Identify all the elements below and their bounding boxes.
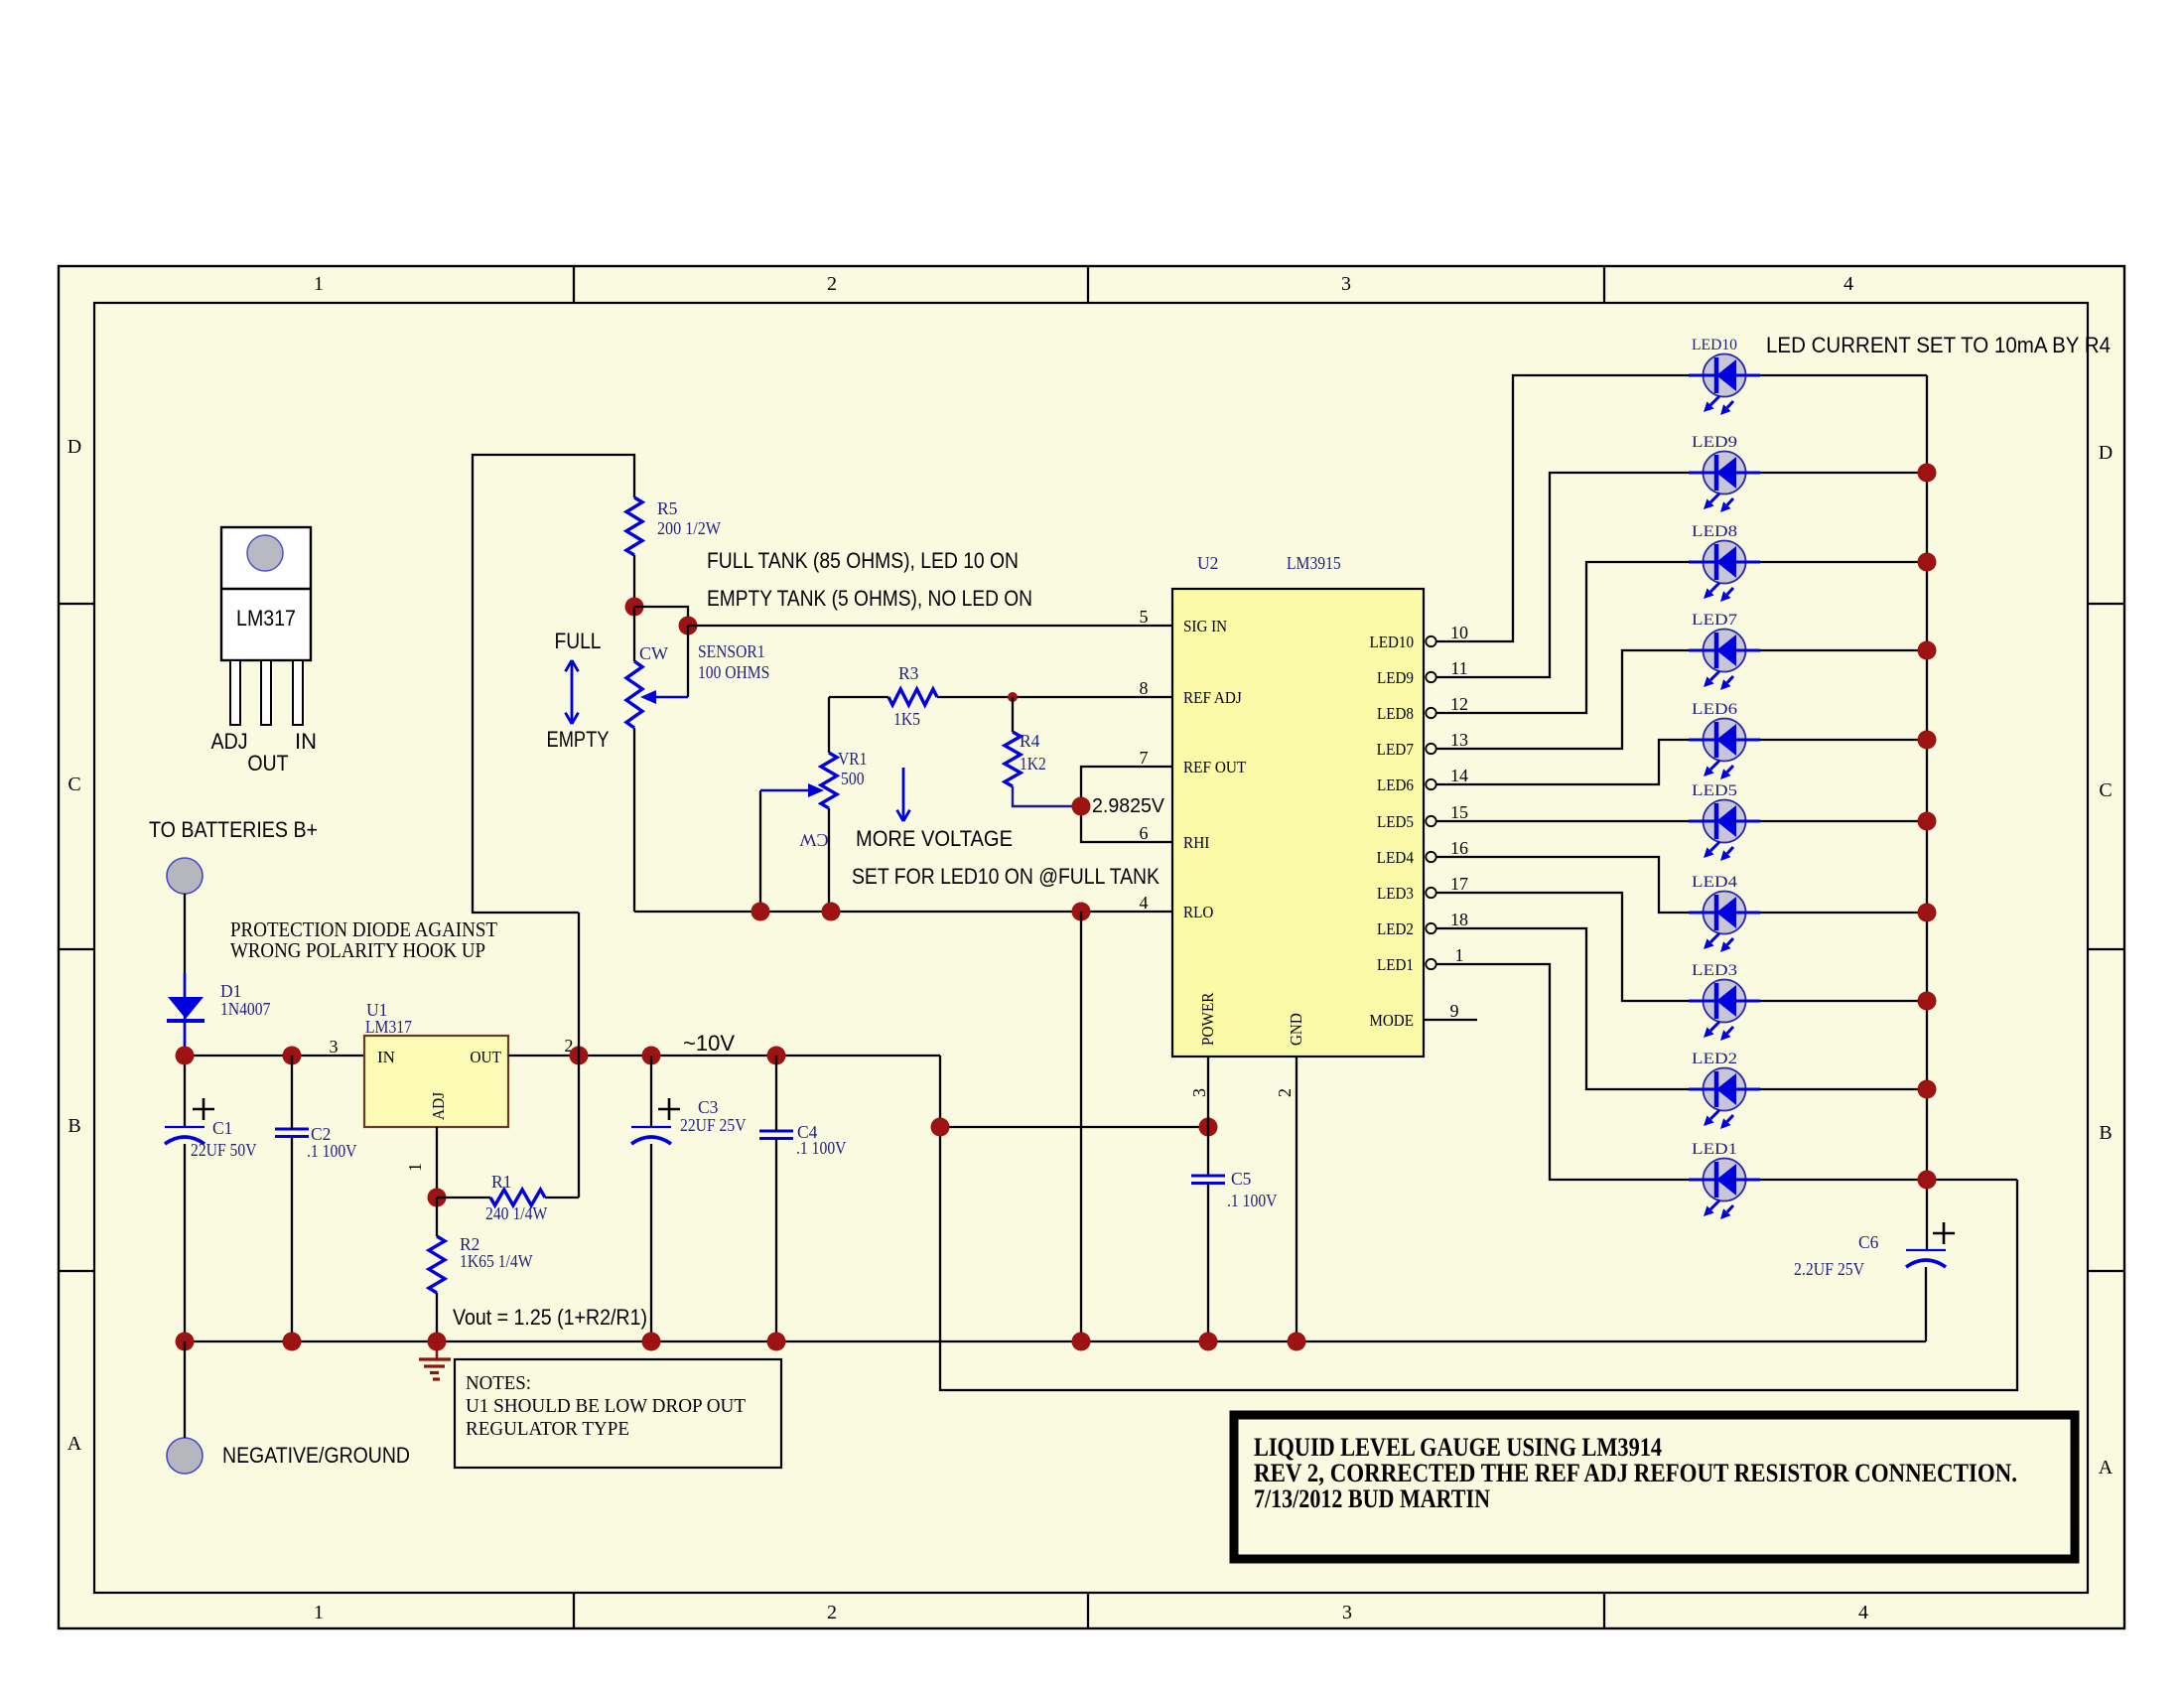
svg-text:ADJ: ADJ <box>429 1092 448 1120</box>
svg-text:LED1: LED1 <box>1377 955 1414 974</box>
junction bus LED2 <box>1918 1080 1937 1099</box>
svg-text:LED8: LED8 <box>1377 704 1414 723</box>
svg-text:LED3: LED3 <box>1377 884 1414 903</box>
svg-text:D: D <box>68 436 81 458</box>
capacitor C6 <box>1906 1249 1946 1251</box>
svg-text:7: 7 <box>1140 748 1149 768</box>
svg-text:LM3915: LM3915 <box>1287 553 1341 573</box>
frame column tick <box>1603 266 1605 303</box>
svg-text:LED7: LED7 <box>1692 612 1737 629</box>
junction C3 tap <box>642 1047 661 1065</box>
junction RLO/ref divider <box>1072 903 1091 921</box>
junction R5/sensor <box>625 598 644 617</box>
svg-text:4: 4 <box>1843 273 1853 295</box>
potentiometer VR1 <box>821 753 837 808</box>
junction bus LED3 <box>1918 992 1937 1011</box>
svg-text:LED6: LED6 <box>1377 775 1414 794</box>
svg-text:EMPTY TANK (5 OHMS), NO LED ON: EMPTY TANK (5 OHMS), NO LED ON <box>707 586 1032 611</box>
svg-text:3: 3 <box>1341 273 1351 295</box>
svg-text:2.2UF 25V: 2.2UF 25V <box>1794 1259 1864 1279</box>
junction R3/R4 <box>1008 692 1018 702</box>
inner border <box>94 303 2088 1593</box>
svg-text:2: 2 <box>827 1602 837 1623</box>
svg-text:2: 2 <box>1275 1088 1295 1097</box>
wire pin to LED7 <box>1436 650 1927 749</box>
svg-text:R3: R3 <box>898 663 919 683</box>
svg-text:12: 12 <box>1450 694 1468 714</box>
svg-text:C5: C5 <box>1231 1169 1252 1189</box>
svg-text:3: 3 <box>1342 1602 1352 1623</box>
capacitor C5 <box>1191 1175 1225 1178</box>
LED2 symbol <box>1704 1068 1746 1111</box>
svg-text:FULL TANK (85 OHMS), LED 10 ON: FULL TANK (85 OHMS), LED 10 ON <box>707 548 1019 573</box>
full-empty arrow <box>571 660 574 724</box>
svg-text:REGULATOR TYPE: REGULATOR TYPE <box>466 1418 629 1440</box>
svg-text:1: 1 <box>314 1602 324 1623</box>
wire pin to LED8 <box>1436 562 1927 713</box>
junction sensor wiper node <box>679 617 698 635</box>
svg-text:RHI: RHI <box>1183 833 1210 852</box>
svg-text:1: 1 <box>1455 945 1464 965</box>
frame column tick <box>573 266 575 303</box>
ground rail <box>185 1340 1926 1342</box>
svg-text:RLO: RLO <box>1183 903 1213 921</box>
svg-text:LED10: LED10 <box>1692 337 1737 353</box>
svg-text:.1 100V: .1 100V <box>1227 1191 1278 1210</box>
svg-text:CW: CW <box>799 830 828 850</box>
svg-text:LED5: LED5 <box>1377 812 1414 831</box>
MODE stub <box>1424 1019 1477 1021</box>
svg-text:LED5: LED5 <box>1692 782 1737 799</box>
svg-text:LED6: LED6 <box>1692 701 1737 718</box>
LED6 symbol <box>1704 719 1746 762</box>
svg-text:4: 4 <box>1140 893 1149 913</box>
svg-text:MODE: MODE <box>1369 1011 1414 1030</box>
capacitor C3 <box>631 1126 671 1128</box>
svg-text:WRONG POLARITY HOOK UP: WRONG POLARITY HOOK UP <box>230 938 485 962</box>
svg-text:11: 11 <box>1450 658 1467 678</box>
svg-text:LED4: LED4 <box>1692 874 1737 891</box>
wire 10V feed down <box>940 1056 2017 1390</box>
svg-text:GND: GND <box>1287 1013 1305 1046</box>
svg-text:C1: C1 <box>212 1118 232 1138</box>
svg-text:POWER: POWER <box>1198 992 1217 1046</box>
svg-text:A: A <box>2099 1457 2114 1479</box>
svg-text:FULL: FULL <box>555 629 602 653</box>
svg-text:LED1: LED1 <box>1692 1141 1737 1158</box>
junction bus LED7 <box>1918 641 1937 660</box>
svg-text:U1 SHOULD BE LOW DROP OUT: U1 SHOULD BE LOW DROP OUT <box>466 1395 746 1417</box>
svg-text:100 OHMS: 100 OHMS <box>698 662 769 682</box>
capacitor C2 <box>275 1128 309 1131</box>
svg-text:OUT: OUT <box>470 1048 501 1066</box>
wire B+ to D1 <box>184 894 186 1127</box>
sensor wiper arrow <box>687 626 689 697</box>
wire pin to LED3 <box>1436 893 1927 1001</box>
junction ground rail x=656 <box>642 1333 661 1351</box>
svg-text:LED3: LED3 <box>1692 962 1737 979</box>
svg-text:ADJ: ADJ <box>211 729 248 754</box>
svg-text:NEGATIVE/GROUND: NEGATIVE/GROUND <box>222 1443 410 1468</box>
svg-text:2.9825V: 2.9825V <box>1092 794 1164 817</box>
svg-text:LIQUID LEVEL GAUGE USING LM391: LIQUID LEVEL GAUGE USING LM3914 <box>1254 1433 1662 1462</box>
svg-text:B: B <box>68 1115 80 1137</box>
svg-text:LED7: LED7 <box>1377 740 1415 759</box>
battery terminal B+ <box>167 858 203 894</box>
junction bus LED9 <box>1918 464 1937 483</box>
svg-text:1: 1 <box>314 273 324 295</box>
wire power node <box>940 1126 1208 1128</box>
junction ground rail x=1306 <box>1288 1333 1306 1351</box>
wire RLO rail <box>634 911 1172 913</box>
frame row tick <box>59 1270 94 1272</box>
svg-text:6: 6 <box>1140 823 1149 843</box>
svg-text:4: 4 <box>1858 1602 1868 1623</box>
LED8 symbol <box>1704 541 1746 584</box>
wire POWER pin <box>1207 1057 1209 1176</box>
svg-text:C: C <box>68 774 80 795</box>
svg-text:17: 17 <box>1450 874 1468 894</box>
svg-text:LM317: LM317 <box>236 606 296 631</box>
wire pin to LED10 <box>1436 375 1927 641</box>
junction ADJ/R1/R2 <box>428 1189 447 1207</box>
svg-text:REF OUT: REF OUT <box>1183 758 1247 776</box>
potentiometer SENSOR1 <box>626 661 642 728</box>
LED anode bus <box>1926 375 1928 1250</box>
svg-text:LED2: LED2 <box>1377 919 1414 938</box>
svg-text:7/13/2012 BUD MARTIN: 7/13/2012 BUD MARTIN <box>1254 1484 1490 1513</box>
wire U1 ADJ <box>436 1127 438 1198</box>
svg-text:LED10: LED10 <box>1370 633 1415 651</box>
svg-text:13: 13 <box>1450 730 1468 750</box>
frame row tick <box>59 948 94 950</box>
svg-text:18: 18 <box>1450 910 1468 929</box>
junction input/C2 <box>283 1047 302 1065</box>
svg-text:LED8: LED8 <box>1692 523 1737 540</box>
svg-text:22UF 25V: 22UF 25V <box>680 1115 747 1135</box>
svg-text:~10V: ~10V <box>683 1031 735 1056</box>
title block <box>1234 1415 2075 1559</box>
svg-text:LM317: LM317 <box>365 1017 412 1037</box>
svg-text:16: 16 <box>1450 838 1468 858</box>
svg-text:22UF 50V: 22UF 50V <box>191 1140 257 1160</box>
junction bus LED1 <box>1918 1171 1937 1190</box>
sheet background <box>59 266 2124 1628</box>
svg-text:.1 100V: .1 100V <box>307 1141 357 1161</box>
regulator U1 body <box>364 1036 508 1127</box>
svg-text:14: 14 <box>1450 766 1468 785</box>
junction ground rail x=1217 <box>1199 1333 1218 1351</box>
LED5 symbol <box>1704 800 1746 843</box>
svg-text:Vout = 1.25 (1+R2/R1): Vout = 1.25 (1+R2/R1) <box>453 1305 647 1330</box>
svg-text:1N4007: 1N4007 <box>220 999 271 1019</box>
LED10 symbol <box>1704 354 1746 397</box>
wire REF OUT RHI <box>1081 767 1172 842</box>
resistor R3 <box>888 689 937 705</box>
svg-text:1K2: 1K2 <box>1020 754 1046 774</box>
junction bus LED4 <box>1918 904 1937 922</box>
resistor R4 <box>1005 732 1021 786</box>
junction VR1 bottom/RLO <box>822 903 841 921</box>
LED7 symbol <box>1704 630 1746 672</box>
LM317 leg 1 <box>230 660 240 725</box>
svg-text:10: 10 <box>1450 623 1468 642</box>
IC U2 body <box>1172 589 1424 1057</box>
svg-text:LED9: LED9 <box>1692 434 1737 451</box>
junction bus LED5 <box>1918 812 1937 831</box>
wire pin to LED9 <box>1436 473 1927 677</box>
svg-text:3: 3 <box>330 1037 339 1057</box>
LED9 symbol <box>1704 452 1746 494</box>
svg-text:A: A <box>68 1433 82 1455</box>
more voltage arrow <box>902 768 905 821</box>
svg-text:REF ADJ: REF ADJ <box>1183 688 1242 707</box>
svg-text:IN: IN <box>295 729 317 754</box>
svg-text:R1: R1 <box>491 1172 511 1192</box>
capacitor C1 <box>165 1126 205 1128</box>
svg-text:LED9: LED9 <box>1377 668 1414 687</box>
svg-text:C3: C3 <box>698 1097 719 1117</box>
wire ref divider to ground <box>1080 912 1082 1341</box>
VR1 wiper arrow <box>759 790 761 912</box>
svg-text:LED2: LED2 <box>1692 1051 1737 1067</box>
wire pin to LED6 <box>1436 740 1927 784</box>
wire GND pin <box>1296 1057 1297 1341</box>
LM317 leg 2 <box>261 660 271 725</box>
svg-text:LED4: LED4 <box>1377 848 1415 867</box>
svg-text:U2: U2 <box>1197 553 1218 573</box>
svg-text:200 1/2W: 200 1/2W <box>657 518 721 538</box>
svg-text:1K5: 1K5 <box>893 709 920 729</box>
svg-text:1K65 1/4W: 1K65 1/4W <box>460 1251 533 1271</box>
wire VR1 top <box>828 697 830 753</box>
junction REF node <box>1072 797 1091 816</box>
svg-text:9: 9 <box>1450 1001 1459 1021</box>
svg-text:R4: R4 <box>1020 731 1040 751</box>
svg-text:3: 3 <box>1189 1088 1209 1097</box>
junction 10V/power <box>931 1118 950 1137</box>
svg-text:D: D <box>2099 442 2113 464</box>
junction bus LED8 <box>1918 553 1937 572</box>
svg-text:1: 1 <box>405 1163 425 1172</box>
frame row tick <box>59 603 94 605</box>
junction VR1 wiper/RLO <box>751 903 770 921</box>
junction power pin <box>1199 1118 1218 1137</box>
LED4 symbol <box>1704 892 1746 934</box>
svg-text:SET FOR LED10 ON @FULL TANK: SET FOR LED10 ON @FULL TANK <box>852 864 1160 889</box>
wire OUT loop <box>473 455 634 913</box>
wire R1 to OUT <box>578 913 580 1198</box>
wire pin to LED5 <box>1436 820 1927 822</box>
ground symbol <box>436 1341 439 1359</box>
junction ground rail x=294 <box>283 1333 302 1351</box>
svg-text:TO BATTERIES B+: TO BATTERIES B+ <box>149 817 318 842</box>
svg-text:C6: C6 <box>1858 1232 1879 1252</box>
junction bus LED6 <box>1918 731 1937 750</box>
svg-text:8: 8 <box>1140 678 1149 698</box>
wire sensor jog <box>634 607 688 626</box>
svg-text:D1: D1 <box>220 981 241 1001</box>
negative terminal <box>167 1438 203 1474</box>
svg-text:15: 15 <box>1450 802 1468 822</box>
LM317 package tab divider <box>221 588 311 590</box>
junction C4 tap <box>767 1047 786 1065</box>
svg-text:VR1: VR1 <box>838 749 867 769</box>
junction OUT/R1 node <box>570 1047 589 1065</box>
LED1 symbol <box>1704 1159 1746 1201</box>
LED3 symbol <box>1704 980 1746 1023</box>
resistor R2 <box>429 1236 445 1293</box>
svg-text:NOTES:: NOTES: <box>466 1372 531 1394</box>
svg-text:.1 100V: .1 100V <box>796 1138 847 1158</box>
svg-text:SENSOR1: SENSOR1 <box>698 641 765 661</box>
LM317 mounting hole <box>247 535 283 571</box>
LM317 package outline <box>221 527 311 660</box>
svg-text:SIG IN: SIG IN <box>1183 617 1227 635</box>
svg-text:LED CURRENT SET TO 10mA BY R4: LED CURRENT SET TO 10mA BY R4 <box>1766 333 2111 357</box>
wire U1 OUT row <box>508 1055 940 1057</box>
svg-text:R5: R5 <box>657 498 678 518</box>
diode D1 <box>184 973 187 997</box>
LM317 leg 3 <box>293 660 303 725</box>
svg-text:C: C <box>2099 779 2112 801</box>
svg-text:IN: IN <box>377 1048 395 1066</box>
wire pin to LED1 <box>1436 964 2017 1180</box>
wire SIG IN <box>688 625 1172 627</box>
svg-text:REV 2, CORRECTED THE REF ADJ R: REV 2, CORRECTED THE REF ADJ REFOUT RESI… <box>1254 1459 2017 1487</box>
wire pin to LED2 <box>1436 928 1927 1089</box>
wire input row <box>185 1055 364 1057</box>
svg-text:500: 500 <box>841 769 865 788</box>
frame column tick <box>1087 266 1089 303</box>
junction ground rail x=440 <box>428 1333 447 1351</box>
svg-text:MORE VOLTAGE: MORE VOLTAGE <box>856 826 1013 851</box>
wire pin to LED4 <box>1436 857 1927 913</box>
resistor R5 <box>626 497 642 555</box>
svg-text:CW: CW <box>639 643 668 663</box>
notes box <box>455 1359 781 1468</box>
resistor R1 <box>490 1190 545 1205</box>
svg-text:2: 2 <box>827 273 837 295</box>
junction ground rail x=1089 <box>1072 1333 1091 1351</box>
junction ground rail x=782 <box>767 1333 786 1351</box>
svg-text:240 1/4W: 240 1/4W <box>485 1203 548 1223</box>
junction ground rail x=186 <box>176 1333 195 1351</box>
capacitor C4 <box>759 1130 793 1133</box>
svg-text:EMPTY: EMPTY <box>547 727 610 752</box>
svg-text:OUT: OUT <box>247 751 288 775</box>
svg-text:5: 5 <box>1140 607 1149 627</box>
svg-text:B: B <box>2099 1122 2112 1144</box>
junction input/C1 <box>176 1047 195 1065</box>
